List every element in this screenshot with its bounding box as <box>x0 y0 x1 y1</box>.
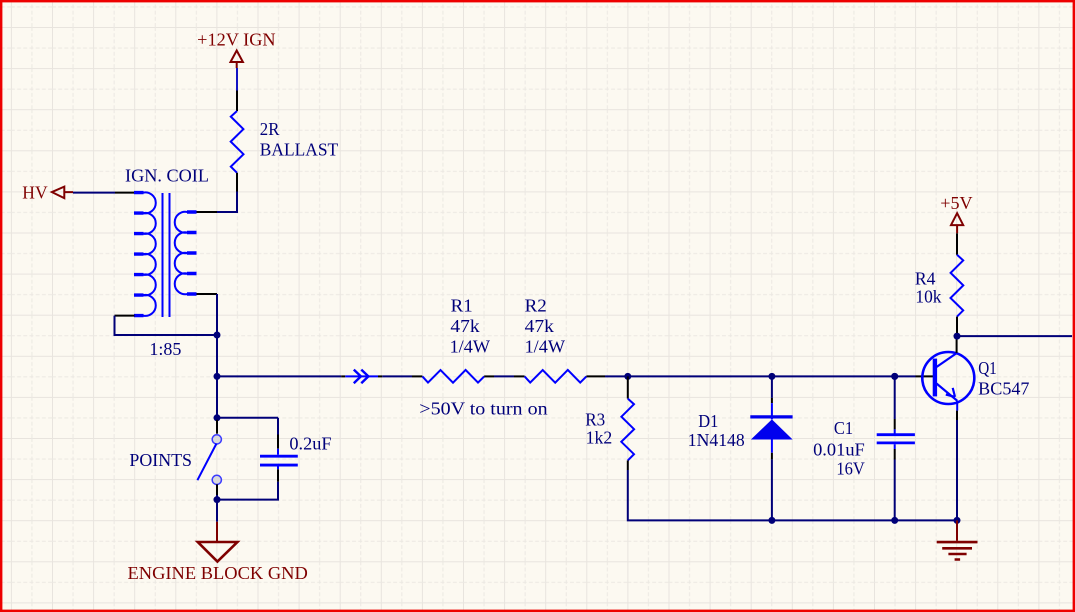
pin R2 left <box>514 375 525 377</box>
svg-text:Q1: Q1 <box>978 358 997 378</box>
switch POINTS <box>129 435 221 485</box>
pin of ballast resistor bottom <box>236 173 238 192</box>
node C1 top <box>891 373 898 380</box>
wire main horizontal to wire entry <box>217 375 341 377</box>
svg-text:47k: 47k <box>450 316 479 336</box>
wire points bottom <box>216 495 218 500</box>
pin points bottom <box>216 484 218 495</box>
pin cap 0.2uF top <box>277 435 279 449</box>
wire cap bottom to points node <box>217 482 278 500</box>
wire HV to transformer primary <box>73 192 115 194</box>
svg-text:>50V to turn on: >50V to turn on <box>419 398 547 418</box>
pin of ballast resistor top <box>236 91 238 112</box>
wire from +12V to ballast resistor <box>236 68 238 91</box>
svg-text:0.01uF: 0.01uF <box>813 440 865 460</box>
wire rail C1 to emitter <box>895 519 957 521</box>
node points bottom <box>214 496 221 503</box>
pin C1 bottom <box>894 449 896 460</box>
pin R3 bottom <box>627 460 629 470</box>
svg-text:10k: 10k <box>915 286 941 306</box>
svg-text:C1: C1 <box>834 418 853 438</box>
pin R3 top <box>627 376 629 398</box>
svg-text:16V: 16V <box>836 459 864 479</box>
capacitor 0.2uF <box>260 433 332 469</box>
pin R1 left <box>412 375 422 377</box>
node points top <box>214 414 221 421</box>
diode D1 <box>688 403 793 453</box>
resistor R1 <box>422 296 490 383</box>
wire R2 to node R3 <box>605 375 628 377</box>
node collector <box>954 333 961 340</box>
wire secondary bottom to rail <box>216 294 218 335</box>
node D1 top <box>768 373 775 380</box>
pin D1 cathode <box>771 398 773 403</box>
pin transformer primary top <box>115 192 135 194</box>
svg-text:1/4W: 1/4W <box>525 337 565 357</box>
wire emitter to rail <box>956 420 958 520</box>
resistor R4 <box>915 255 963 317</box>
resistor R2 <box>525 296 587 383</box>
node R3 top <box>624 373 631 380</box>
svg-text:R3: R3 <box>585 409 605 429</box>
pin Q1 emitter <box>956 401 958 411</box>
pin R2 right <box>586 375 605 377</box>
wire entry to R1 <box>382 375 412 377</box>
pin cap 0.2uF bottom <box>277 469 279 482</box>
svg-text:1:85: 1:85 <box>149 339 181 359</box>
wire primary bottom to rail <box>115 316 218 335</box>
svg-text:IGN. COIL: IGN. COIL <box>125 166 209 186</box>
power port +12V IGN <box>197 30 275 68</box>
port HV <box>22 183 73 203</box>
svg-text:POINTS: POINTS <box>129 450 192 470</box>
svg-text:BALLAST: BALLAST <box>260 140 338 160</box>
wire D1 to rail <box>771 459 773 520</box>
wire node R3 to node D1 <box>628 375 772 377</box>
capacitor C1 <box>813 418 915 479</box>
resistor R3 <box>585 399 634 461</box>
pin D1 anode <box>771 453 773 460</box>
wire R1 to R2 <box>494 375 514 377</box>
node main <box>214 373 221 380</box>
node D1 bottom <box>768 517 775 524</box>
wire C1 top <box>894 376 896 419</box>
pin R4 bottom <box>956 317 958 333</box>
svg-text:R1: R1 <box>451 296 473 316</box>
wire points node to engine gnd <box>216 500 218 522</box>
wire rail D1 to C1 <box>772 519 895 521</box>
wire down to main node <box>216 335 218 376</box>
pin R4 top <box>956 233 958 255</box>
pin transformer primary bottom <box>115 315 135 317</box>
node C1 bottom <box>891 517 898 524</box>
svg-text:2R: 2R <box>260 119 280 139</box>
transistor Q1 <box>922 352 1029 404</box>
svg-text:HV: HV <box>22 183 47 203</box>
wire node to points and cap branch <box>217 376 278 434</box>
wire C1 to rail <box>894 460 896 521</box>
pin points top <box>216 420 218 434</box>
svg-text:ENGINE BLOCK GND: ENGINE BLOCK GND <box>128 563 308 583</box>
wire D1 top <box>771 376 773 398</box>
node base <box>891 373 898 380</box>
svg-text:1N4148: 1N4148 <box>688 430 745 450</box>
ground ENGINE BLOCK GND <box>128 522 308 583</box>
svg-text:0.2uF: 0.2uF <box>289 433 331 453</box>
wire base <box>895 375 916 377</box>
transformer primary winding <box>134 192 156 316</box>
pin transformer secondary bottom <box>197 293 218 295</box>
wire R3 bottom to rail <box>628 470 772 520</box>
svg-text:R2: R2 <box>525 296 547 316</box>
pin Q1 collector <box>956 337 958 353</box>
wire entry chevrons <box>345 370 378 384</box>
pin transformer secondary top <box>197 211 218 213</box>
svg-text:BC547: BC547 <box>978 378 1029 398</box>
node emitter rail <box>954 517 961 524</box>
svg-text:+12V IGN: +12V IGN <box>197 30 275 50</box>
pin wire entry right <box>378 375 382 377</box>
power port +5V <box>940 193 972 234</box>
node junction coil bottom <box>214 332 221 339</box>
ground GND earth <box>937 520 978 559</box>
svg-text:47k: 47k <box>525 316 554 336</box>
svg-text:+5V: +5V <box>940 193 972 213</box>
svg-text:D1: D1 <box>698 411 718 431</box>
pin C1 top <box>894 419 896 429</box>
pin Q1 base <box>916 375 934 377</box>
wire D1 node to C1 node <box>772 375 895 377</box>
pin wire entry left <box>341 375 345 377</box>
wire ballast to transformer secondary <box>217 192 237 213</box>
svg-text:1k2: 1k2 <box>586 428 613 448</box>
wire collector to right edge <box>957 335 1072 337</box>
svg-text:1/4W: 1/4W <box>450 337 490 357</box>
wire R4 to collector node <box>956 333 958 336</box>
transformer core <box>163 193 170 317</box>
resistor 2R BALLAST <box>231 111 339 173</box>
transformer secondary winding <box>175 212 197 295</box>
pin R1 right <box>484 375 494 377</box>
